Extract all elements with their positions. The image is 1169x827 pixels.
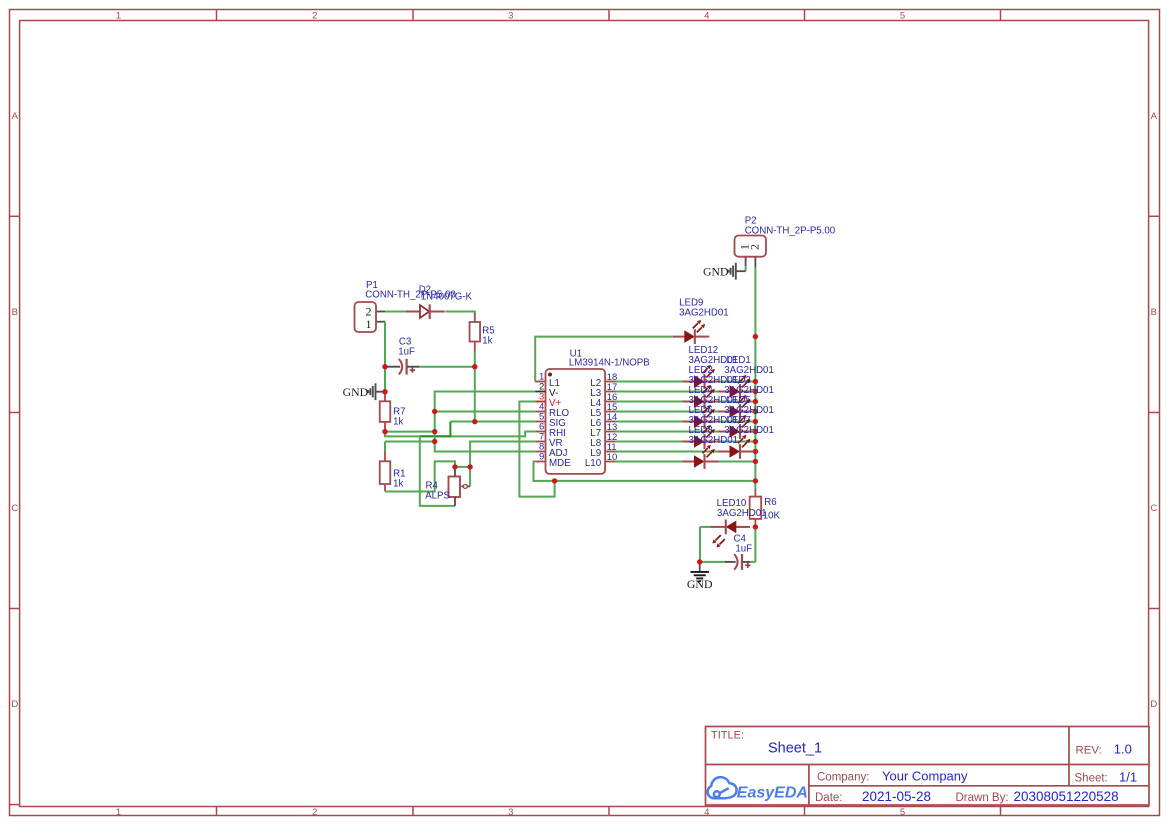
svg-text:Sheet_1: Sheet_1 [768, 741, 822, 757]
svg-text:9: 9 [539, 452, 544, 463]
svg-text:Company:: Company: [817, 771, 869, 783]
svg-text:EasyEDA: EasyEDA [737, 784, 808, 801]
svg-text:C: C [11, 503, 18, 514]
svg-text:20308051220528: 20308051220528 [1014, 789, 1119, 804]
svg-text:1.0: 1.0 [1114, 741, 1132, 756]
svg-text:5: 5 [900, 807, 905, 818]
svg-text:Date:: Date: [815, 792, 843, 804]
svg-text:GND: GND [703, 265, 729, 279]
svg-text:2: 2 [312, 11, 317, 22]
svg-text:D: D [11, 699, 18, 710]
svg-text:1k: 1k [482, 335, 492, 346]
svg-text:REV:: REV: [1076, 744, 1102, 756]
svg-text:Sheet:: Sheet: [1075, 772, 1108, 784]
svg-text:2: 2 [312, 807, 317, 818]
svg-text:2021-05-28: 2021-05-28 [862, 789, 931, 804]
svg-text:3: 3 [508, 11, 513, 22]
svg-text:3AG2HD01: 3AG2HD01 [717, 508, 767, 519]
svg-text:TITLE:: TITLE: [711, 730, 744, 742]
svg-text:GND: GND [343, 385, 369, 399]
svg-text:B: B [12, 307, 18, 318]
svg-text:4: 4 [704, 11, 709, 22]
svg-text:1: 1 [116, 807, 121, 818]
svg-text:10K: 10K [763, 510, 781, 521]
svg-text:A: A [1151, 111, 1158, 122]
svg-text:1uF: 1uF [735, 544, 752, 555]
svg-text:MDE: MDE [549, 458, 571, 469]
svg-text:ALPS: ALPS [425, 491, 450, 502]
svg-text:10: 10 [607, 452, 618, 463]
svg-text:A: A [12, 111, 19, 122]
svg-text:1N4007G-K: 1N4007G-K [421, 292, 473, 303]
svg-text:2: 2 [748, 244, 762, 250]
svg-text:3AG2HD01: 3AG2HD01 [679, 308, 729, 319]
svg-text:4: 4 [704, 807, 709, 818]
svg-text:GND: GND [687, 577, 713, 591]
svg-text:1: 1 [366, 317, 372, 331]
svg-text:3: 3 [508, 807, 513, 818]
svg-text:Drawn By:: Drawn By: [956, 792, 1009, 804]
svg-text:1uF: 1uF [398, 346, 415, 357]
svg-text:CONN-TH_2P-P5.00: CONN-TH_2P-P5.00 [745, 225, 836, 236]
svg-text:1k: 1k [393, 417, 403, 428]
svg-text:C: C [1150, 503, 1157, 514]
svg-text:5: 5 [900, 11, 905, 22]
svg-text:Your Company: Your Company [882, 768, 968, 783]
svg-text:1: 1 [116, 11, 121, 22]
svg-text:1/1: 1/1 [1119, 769, 1137, 784]
svg-text:3AG2HD01: 3AG2HD01 [689, 435, 739, 446]
svg-text:R6: R6 [764, 497, 776, 508]
svg-text:D: D [1150, 699, 1157, 710]
svg-text:B: B [1151, 307, 1157, 318]
svg-text:1k: 1k [393, 479, 403, 490]
svg-text:LM3914N-1/NOPB: LM3914N-1/NOPB [569, 358, 650, 369]
svg-text:L10: L10 [585, 458, 602, 469]
